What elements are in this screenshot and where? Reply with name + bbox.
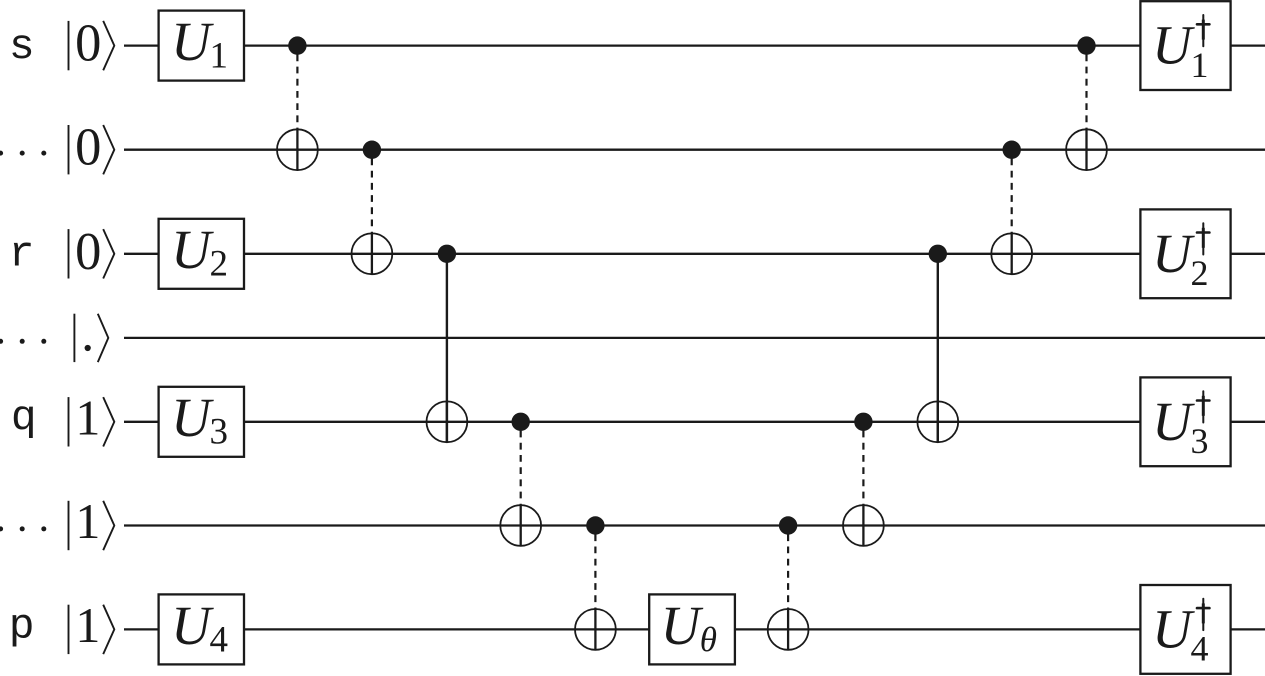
svg-text:θ: θ <box>700 620 717 659</box>
svg-text:s: s <box>9 22 35 71</box>
svg-text:3: 3 <box>1191 421 1209 461</box>
svg-text:2: 2 <box>210 244 229 285</box>
svg-text:U: U <box>1152 223 1195 284</box>
svg-text:0: 0 <box>75 15 101 73</box>
svg-text:U: U <box>1152 15 1195 76</box>
svg-text:0: 0 <box>75 223 101 281</box>
svg-text:U: U <box>171 11 214 72</box>
svg-text:3: 3 <box>210 412 229 453</box>
svg-text:U: U <box>171 387 214 448</box>
svg-text:U: U <box>1152 598 1195 659</box>
svg-text:2: 2 <box>1191 253 1209 293</box>
svg-text:1: 1 <box>75 597 100 653</box>
svg-text:0: 0 <box>75 119 101 177</box>
svg-text:1: 1 <box>1191 45 1209 85</box>
svg-text:1: 1 <box>75 389 100 445</box>
svg-text:r: r <box>9 230 35 279</box>
svg-text:4: 4 <box>1191 629 1209 669</box>
svg-text:U: U <box>171 219 214 280</box>
svg-text:1: 1 <box>75 493 100 549</box>
svg-text:q: q <box>11 393 37 442</box>
svg-text:U: U <box>661 595 704 656</box>
svg-text:U: U <box>1152 391 1195 452</box>
svg-text:1: 1 <box>210 36 229 77</box>
svg-text:p: p <box>9 601 35 650</box>
svg-text:4: 4 <box>210 619 229 660</box>
svg-text:U: U <box>171 595 214 656</box>
